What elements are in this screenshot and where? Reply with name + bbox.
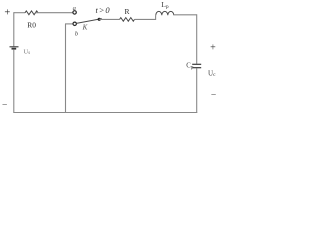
svg-text:Us: Us xyxy=(24,48,31,56)
node b terminal circle xyxy=(73,22,76,25)
svg-text:R: R xyxy=(124,7,129,16)
wire right vertical lower (capacitor to bottom) xyxy=(196,68,198,113)
inductor Lp xyxy=(156,11,174,15)
svg-text:t>0: t>0 xyxy=(95,5,110,15)
svg-text:+: + xyxy=(4,8,10,19)
svg-text:R0: R0 xyxy=(27,20,36,29)
wire top-left horizontal from source + terminal to R0 xyxy=(14,12,25,14)
wire right vertical upper (to capacitor) xyxy=(196,14,198,64)
wire from R to Lp xyxy=(135,15,156,19)
resistor R xyxy=(120,18,135,22)
svg-text:a: a xyxy=(73,5,76,12)
battery Us short thick plate xyxy=(12,48,17,50)
capacitor Cp top plate xyxy=(192,63,201,65)
capacitor Cp bottom plate xyxy=(192,67,201,69)
wire middle vertical branch from node b down to bottom wire xyxy=(65,24,67,113)
battery Us long plate xyxy=(10,46,19,48)
resistor R0 xyxy=(25,11,38,15)
svg-text:Uc: Uc xyxy=(208,69,216,78)
node a terminal circle xyxy=(73,11,76,14)
svg-text:+: + xyxy=(210,43,216,54)
svg-text:K: K xyxy=(82,24,88,32)
wire from R0 to node a xyxy=(36,12,73,14)
junction dot at switch output xyxy=(98,18,101,21)
svg-text:Lp: Lp xyxy=(161,0,169,10)
switch K blade from node b to junction xyxy=(76,19,102,24)
wire from junction to R xyxy=(99,18,119,20)
wire left vertical (source branch upper part) xyxy=(13,12,15,46)
svg-text:−: − xyxy=(2,101,7,111)
wire stub from vertical branch to node b xyxy=(65,23,73,25)
wire left vertical (source branch lower part) xyxy=(13,49,15,112)
wire bottom horizontal xyxy=(13,112,197,114)
wire from Lp to top-right corner xyxy=(174,14,197,16)
svg-text:−: − xyxy=(211,90,216,100)
svg-text:Cp: Cp xyxy=(186,63,194,71)
svg-text:b: b xyxy=(75,30,79,37)
